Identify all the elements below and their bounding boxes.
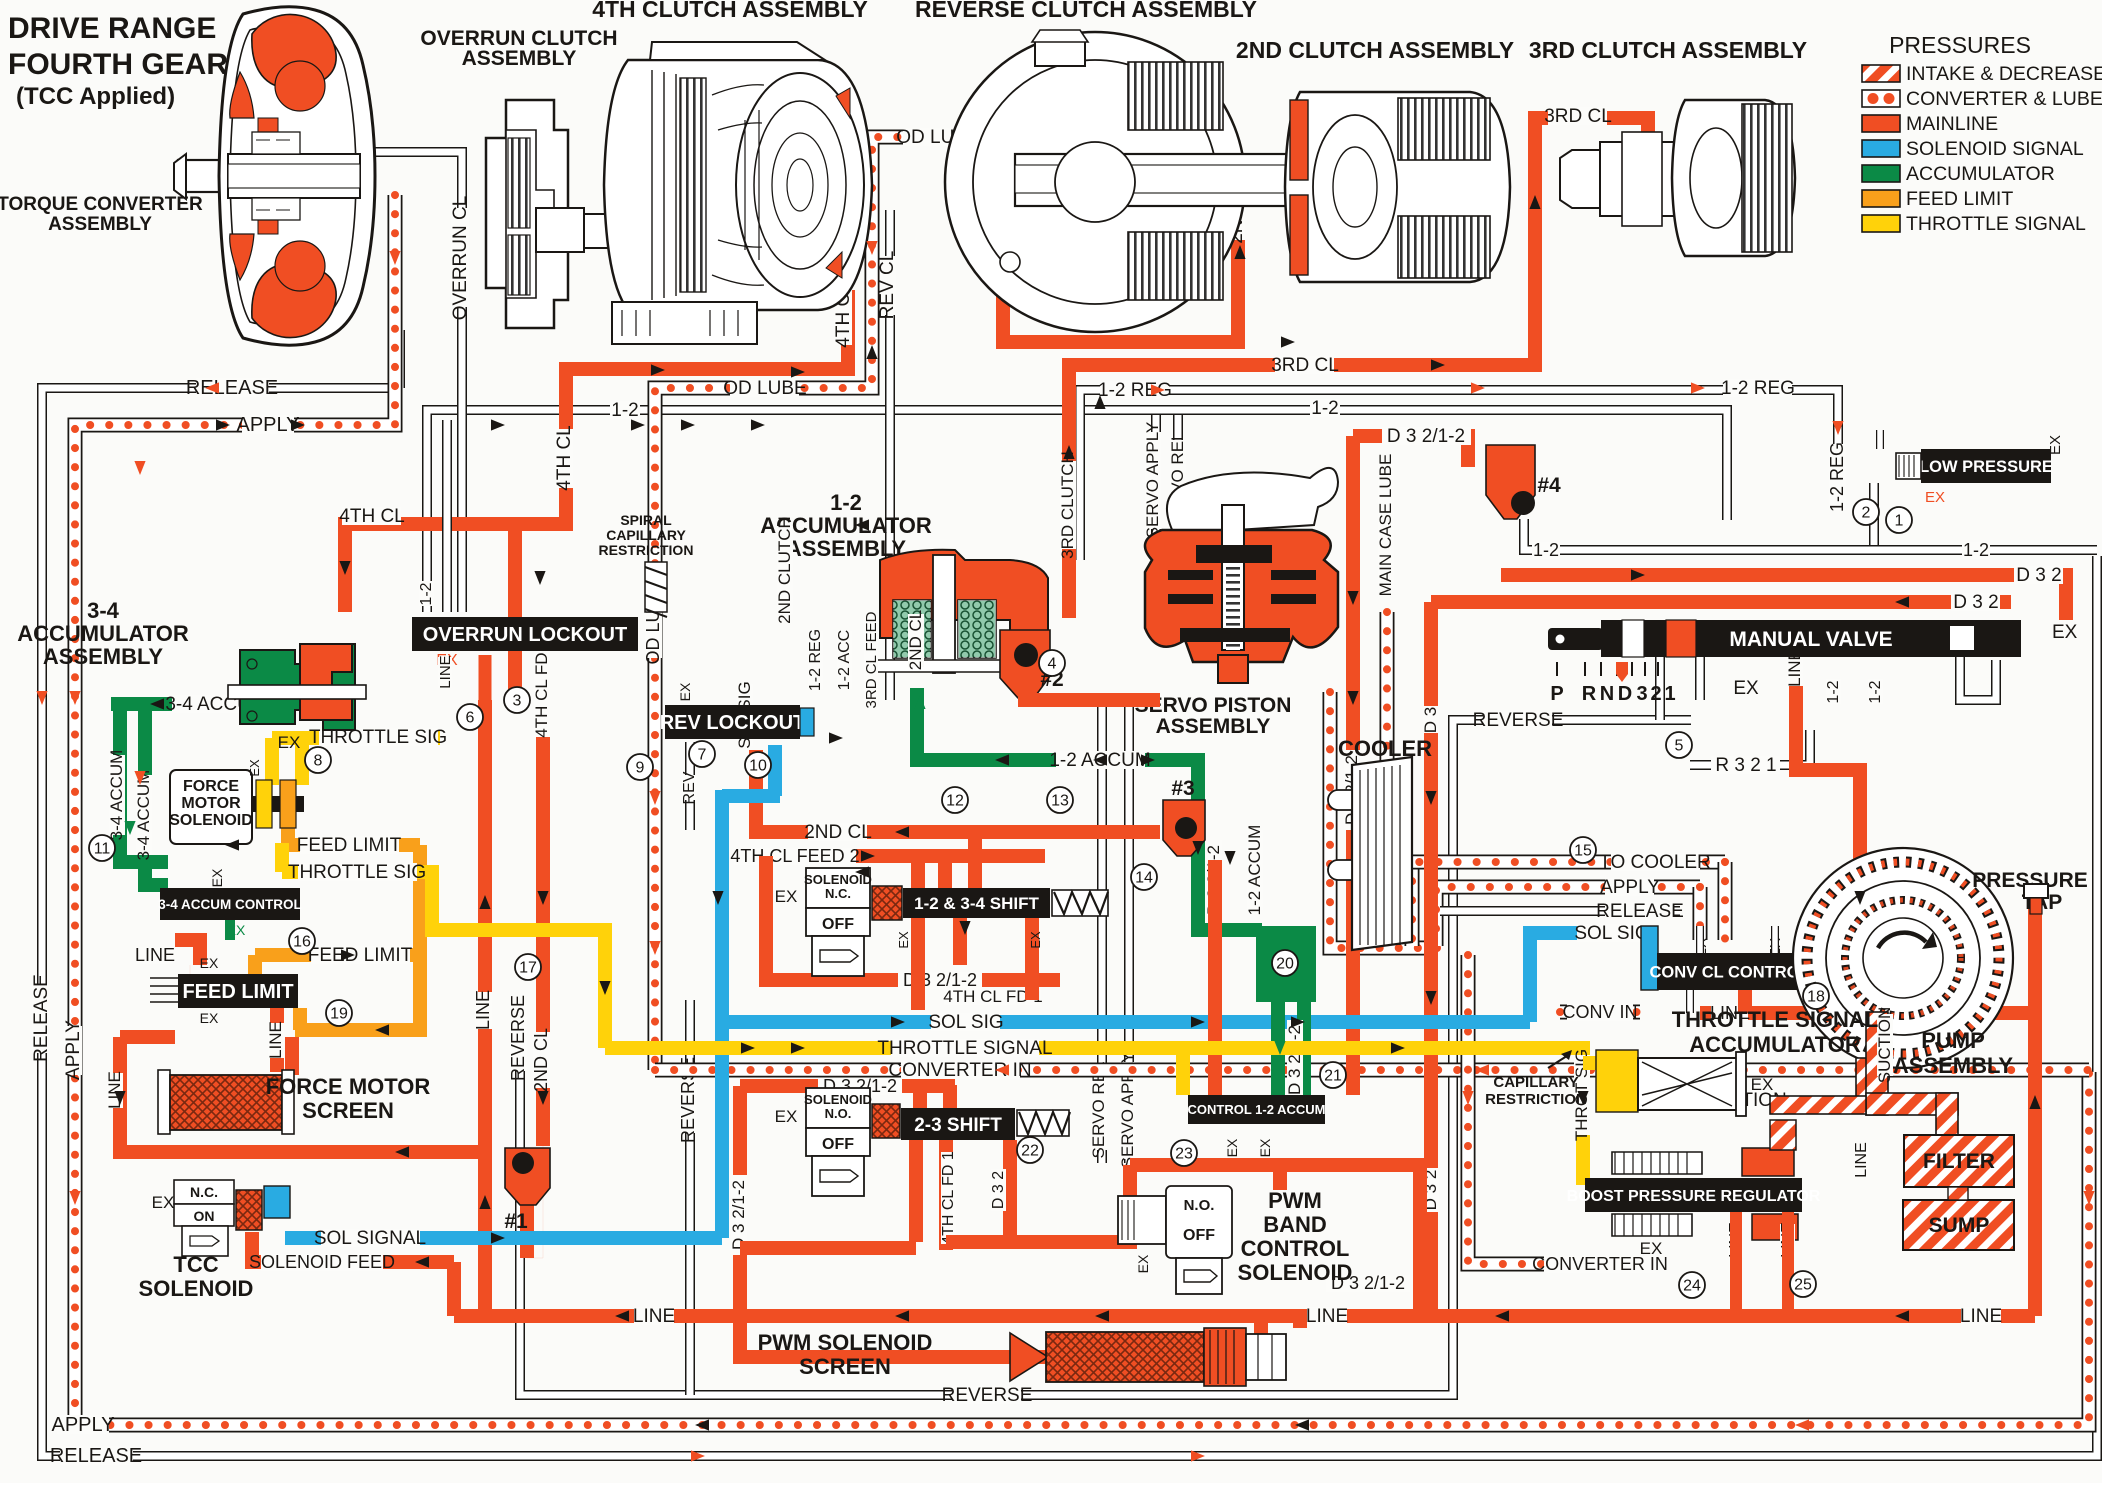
svg-text:SOL SIGNAL: SOL SIGNAL (314, 1228, 426, 1249)
svg-text:EX: EX (1224, 1138, 1240, 1157)
svg-text:4: 4 (1048, 656, 1057, 673)
svg-text:PWM: PWM (1268, 1188, 1322, 1213)
svg-text:3-4 ACCUM: 3-4 ACCUM (134, 770, 153, 861)
svg-text:TCC: TCC (173, 1252, 218, 1277)
svg-text:2: 2 (1650, 683, 1661, 705)
svg-text:EX: EX (200, 1010, 219, 1026)
svg-text:OD LUBE: OD LUBE (723, 378, 806, 399)
svg-text:4TH CL FD 1: 4TH CL FD 1 (940, 1151, 957, 1245)
svg-text:3-4 ACCUM: 3-4 ACCUM (107, 750, 126, 841)
svg-text:1-2 ACCUM: 1-2 ACCUM (1245, 825, 1264, 916)
svg-text:APPLY: APPLY (1600, 877, 1660, 898)
svg-text:10: 10 (749, 758, 767, 775)
svg-text:SOLENOID: SOLENOID (1238, 1260, 1353, 1285)
svg-text:RELEASE: RELEASE (186, 377, 278, 399)
svg-text:FOURTH GEAR: FOURTH GEAR (8, 48, 228, 81)
svg-text:SOL SIG: SOL SIG (928, 1012, 1003, 1033)
svg-text:REV: REV (681, 771, 698, 804)
svg-text:D 3 2: D 3 2 (2016, 565, 2061, 586)
svg-text:3: 3 (1636, 683, 1647, 705)
svg-text:2ND CLUTCH: 2ND CLUTCH (775, 516, 794, 624)
svg-text:PWM SOLENOID: PWM SOLENOID (758, 1330, 933, 1355)
svg-text:MOTOR: MOTOR (181, 795, 241, 812)
svg-text:3RD CLUTCH ASSEMBLY: 3RD CLUTCH ASSEMBLY (1529, 37, 1807, 63)
svg-text:R 3 2 1: R 3 2 1 (1715, 755, 1776, 776)
svg-text:SCREEN: SCREEN (799, 1354, 891, 1379)
svg-text:2: 2 (1862, 505, 1871, 522)
svg-text:RESTRICTION: RESTRICTION (1485, 1091, 1587, 1108)
svg-text:ACCUMULATOR: ACCUMULATOR (1906, 163, 2055, 185)
svg-text:1-2: 1-2 (1867, 680, 1884, 703)
svg-text:DRIVE RANGE: DRIVE RANGE (8, 12, 216, 45)
svg-text:EX: EX (1925, 489, 1945, 506)
svg-text:SOLENOID: SOLENOID (139, 1276, 254, 1301)
svg-text:OVERRUN CL: OVERRUN CL (450, 196, 471, 321)
svg-text:EX: EX (152, 1193, 175, 1212)
svg-text:25: 25 (1794, 1277, 1812, 1294)
svg-text:OFF: OFF (822, 1136, 854, 1153)
svg-text:TO COOLER: TO COOLER (1599, 852, 1711, 873)
svg-text:PRESSURES: PRESSURES (1889, 32, 2031, 58)
svg-text:LINE: LINE (1960, 1306, 2002, 1327)
svg-text:12: 12 (946, 793, 964, 810)
svg-text:CONTROL 1-2 ACCUM: CONTROL 1-2 ACCUM (1188, 1102, 1326, 1117)
svg-text:3RD CLUTCH: 3RD CLUTCH (1058, 451, 1077, 559)
svg-text:SOLENOID: SOLENOID (169, 812, 253, 829)
svg-text:MANUAL VALVE: MANUAL VALVE (1729, 628, 1892, 651)
svg-text:6: 6 (466, 710, 475, 727)
svg-text:22: 22 (1021, 1143, 1039, 1160)
svg-text:LINE: LINE (105, 1071, 124, 1109)
svg-text:#4: #4 (1537, 474, 1561, 497)
svg-text:LINE: LINE (473, 990, 493, 1030)
svg-text:EX: EX (1733, 678, 1759, 699)
svg-text:2-3 SHIFT: 2-3 SHIFT (914, 1115, 1002, 1136)
svg-text:EX: EX (1257, 1138, 1273, 1157)
svg-text:LINE: LINE (437, 655, 454, 688)
svg-text:19: 19 (330, 1006, 348, 1023)
svg-text:1-2: 1-2 (830, 490, 862, 515)
svg-text:ACCUMULATOR: ACCUMULATOR (1689, 1032, 1861, 1057)
svg-text:REV LOCKOUT: REV LOCKOUT (660, 712, 806, 734)
svg-text:BOOST PRESSURE REGULATOR: BOOST PRESSURE REGULATOR (1567, 1188, 1821, 1205)
svg-text:RELEASE: RELEASE (1596, 901, 1684, 922)
svg-text:THROTTLE SIGNAL: THROTTLE SIGNAL (1672, 1007, 1879, 1032)
svg-text:11: 11 (94, 841, 111, 858)
svg-text:13: 13 (1051, 793, 1069, 810)
svg-text:D 3 2: D 3 2 (1953, 592, 1998, 613)
svg-text:SOLENOID FEED: SOLENOID FEED (249, 1252, 395, 1272)
svg-text:LINE: LINE (1306, 1306, 1348, 1327)
svg-text:15: 15 (1574, 843, 1592, 860)
svg-text:EX: EX (2047, 435, 2064, 455)
svg-text:EX: EX (775, 887, 798, 906)
svg-text:APPLY: APPLY (237, 414, 300, 436)
svg-text:1-2: 1-2 (1825, 680, 1842, 703)
svg-text:EX: EX (775, 1107, 798, 1126)
svg-text:23: 23 (1175, 1146, 1193, 1163)
svg-text:P: P (1550, 683, 1563, 705)
svg-text:CAPILLARY: CAPILLARY (1493, 1074, 1578, 1091)
svg-text:LINE: LINE (1853, 1142, 1870, 1178)
svg-text:THROTTLE SIG: THROTTLE SIG (288, 862, 426, 883)
svg-text:D 3 2/1-2: D 3 2/1-2 (1285, 1025, 1304, 1095)
svg-text:REV CL: REV CL (877, 251, 898, 320)
svg-text:OFF: OFF (822, 916, 854, 933)
svg-text:SERVO APPLY: SERVO APPLY (1143, 422, 1162, 539)
svg-text:MAIN CASE LUBE: MAIN CASE LUBE (1376, 454, 1395, 597)
svg-text:ASSEMBLY: ASSEMBLY (462, 47, 577, 70)
svg-text:N.C.: N.C. (825, 886, 851, 901)
svg-text:1-2 REG: 1-2 REG (1827, 442, 1847, 512)
svg-text:1-2: 1-2 (1963, 540, 1989, 560)
svg-text:APPLY: APPLY (63, 1020, 84, 1080)
svg-text:SPIRAL: SPIRAL (620, 512, 672, 528)
svg-text:REVERSE: REVERSE (942, 1385, 1033, 1406)
svg-text:#1: #1 (504, 1210, 528, 1233)
svg-text:THROTTLE SIGNAL: THROTTLE SIGNAL (877, 1038, 1052, 1059)
svg-text:CONVERTER & LUBE: CONVERTER & LUBE (1906, 88, 2102, 110)
svg-text:17: 17 (519, 960, 537, 977)
svg-text:INTAKE & DECREASE: INTAKE & DECREASE (1906, 63, 2102, 85)
svg-text:CONV CL CONTROL: CONV CL CONTROL (1649, 963, 1809, 981)
svg-text:1-2: 1-2 (611, 400, 638, 421)
svg-text:3RD CL: 3RD CL (1271, 355, 1339, 376)
svg-text:1-2 ACC: 1-2 ACC (836, 630, 853, 690)
svg-text:RELEASE: RELEASE (31, 974, 52, 1062)
svg-text:3-4 ACCUM CONTROL: 3-4 ACCUM CONTROL (158, 897, 302, 912)
svg-text:EX: EX (227, 922, 246, 938)
svg-text:18: 18 (1807, 989, 1825, 1006)
svg-text:RESTRICTION: RESTRICTION (599, 542, 694, 558)
svg-text:ASSEMBLY: ASSEMBLY (1893, 1053, 2014, 1078)
svg-text:COOLER: COOLER (1338, 736, 1432, 761)
svg-text:CONTROL: CONTROL (1241, 1236, 1350, 1261)
svg-text:EX: EX (1135, 1254, 1151, 1273)
svg-text:2ND CL: 2ND CL (531, 1028, 551, 1092)
svg-text:3-4: 3-4 (87, 598, 120, 623)
svg-text:14: 14 (1135, 870, 1153, 887)
svg-text:APPLY: APPLY (52, 1414, 115, 1436)
svg-text:D 3 2: D 3 2 (990, 1171, 1007, 1209)
svg-text:ASSEMBLY: ASSEMBLY (43, 644, 164, 669)
svg-text:D: D (1618, 683, 1632, 705)
svg-text:LINE: LINE (135, 945, 175, 965)
svg-text:EX: EX (1028, 931, 1043, 949)
svg-text:7: 7 (698, 747, 707, 764)
svg-text:SCREEN: SCREEN (302, 1098, 394, 1123)
svg-text:N.C.: N.C. (190, 1184, 218, 1200)
svg-text:PUMP: PUMP (1921, 1028, 1985, 1053)
svg-text:EX: EX (278, 733, 301, 752)
svg-text:3RD CL: 3RD CL (1544, 106, 1612, 127)
svg-text:21: 21 (1324, 1068, 1342, 1085)
svg-text:1-2 & 3-4 SHIFT: 1-2 & 3-4 SHIFT (914, 894, 1039, 913)
svg-text:FEED LIMIT: FEED LIMIT (1906, 188, 2013, 210)
svg-text:1: 1 (1664, 683, 1675, 705)
svg-text:OFF: OFF (1183, 1227, 1215, 1244)
svg-text:REVERSE: REVERSE (508, 995, 528, 1081)
svg-text:SUMP: SUMP (1929, 1214, 1990, 1237)
svg-text:1: 1 (1895, 513, 1904, 530)
svg-text:SOLENOID SIGNAL: SOLENOID SIGNAL (1906, 138, 2084, 160)
svg-text:FORCE MOTOR: FORCE MOTOR (266, 1074, 431, 1099)
svg-text:N: N (1600, 683, 1614, 705)
svg-text:1-2 REG: 1-2 REG (1721, 378, 1795, 399)
svg-text:4TH CL FEED 2: 4TH CL FEED 2 (730, 846, 859, 866)
svg-text:1-2: 1-2 (1311, 398, 1338, 419)
svg-text:R: R (1582, 683, 1597, 705)
svg-text:FEED LIMIT: FEED LIMIT (297, 835, 402, 856)
svg-text:BAND: BAND (1263, 1212, 1327, 1237)
svg-text:N.O.: N.O. (825, 1106, 852, 1121)
svg-text:4TH CLUTCH ASSEMBLY: 4TH CLUTCH ASSEMBLY (592, 0, 868, 22)
svg-text:CONV IN: CONV IN (1562, 1002, 1637, 1022)
svg-text:LOW PRESSURE: LOW PRESSURE (1919, 458, 2053, 476)
svg-text:RELEASE: RELEASE (50, 1445, 142, 1467)
svg-text:SOLENOID: SOLENOID (804, 1092, 872, 1107)
svg-text:5: 5 (1675, 738, 1684, 755)
svg-text:9: 9 (636, 760, 645, 777)
svg-text:24: 24 (1683, 1278, 1701, 1295)
svg-text:EX: EX (1751, 1075, 1774, 1094)
svg-text:EX: EX (2052, 622, 2078, 643)
svg-text:LINE: LINE (266, 1021, 285, 1059)
svg-text:2ND CLUTCH ASSEMBLY: 2ND CLUTCH ASSEMBLY (1236, 37, 1514, 63)
svg-text:CONVERTER IN: CONVERTER IN (888, 1060, 1031, 1081)
svg-text:CAPILLARY: CAPILLARY (606, 527, 686, 543)
svg-text:2ND CL: 2ND CL (906, 610, 925, 670)
svg-text:EX: EX (247, 759, 262, 777)
svg-text:SOL SIG: SOL SIG (1574, 923, 1649, 944)
svg-text:3: 3 (513, 693, 522, 710)
svg-text:4TH CL FD 2: 4TH CL FD 2 (532, 638, 551, 738)
svg-text:1-2 REG: 1-2 REG (807, 629, 824, 691)
svg-text:3RD CL FEED: 3RD CL FEED (863, 611, 880, 708)
svg-text:ASSEMBLY: ASSEMBLY (1156, 715, 1271, 738)
svg-text:2ND CL: 2ND CL (804, 822, 872, 843)
svg-text:LINE: LINE (633, 1306, 675, 1327)
svg-text:FORCE: FORCE (183, 778, 239, 795)
svg-text:MAINLINE: MAINLINE (1906, 113, 1998, 135)
svg-text:1-2: 1-2 (418, 582, 435, 605)
svg-text:EX: EX (209, 868, 225, 887)
svg-text:16: 16 (293, 934, 311, 951)
svg-text:ASSEMBLY: ASSEMBLY (48, 214, 152, 235)
svg-text:EX: EX (200, 955, 219, 971)
svg-text:#3: #3 (1171, 777, 1194, 800)
svg-text:N.O.: N.O. (1184, 1197, 1215, 1214)
svg-text:FILTER: FILTER (1923, 1150, 1995, 1173)
svg-text:EX: EX (896, 931, 911, 949)
svg-text:4TH CL: 4TH CL (339, 506, 404, 527)
svg-text:20: 20 (1276, 956, 1294, 973)
svg-text:D 3: D 3 (1421, 707, 1440, 733)
svg-text:REVERSE CLUTCH ASSEMBLY: REVERSE CLUTCH ASSEMBLY (915, 0, 1257, 22)
svg-text:REVERSE: REVERSE (1473, 710, 1564, 731)
svg-text:D 3 2/1-2: D 3 2/1-2 (1387, 426, 1465, 447)
svg-text:FEED LIMIT: FEED LIMIT (308, 945, 413, 966)
svg-text:D 3 2/1-2: D 3 2/1-2 (729, 1180, 748, 1250)
svg-text:EX: EX (1640, 1239, 1663, 1258)
svg-text:1-2: 1-2 (1533, 540, 1559, 560)
svg-text:ACCUMULATOR: ACCUMULATOR (17, 621, 189, 646)
svg-text:4TH CL: 4TH CL (554, 425, 575, 490)
svg-text:TORQUE CONVERTER: TORQUE CONVERTER (0, 194, 203, 215)
svg-text:EX: EX (677, 682, 693, 701)
svg-text:ON: ON (194, 1208, 215, 1224)
svg-text:8: 8 (314, 753, 323, 770)
svg-text:FEED LIMIT: FEED LIMIT (182, 981, 293, 1003)
svg-text:OVERRUN LOCKOUT: OVERRUN LOCKOUT (423, 624, 627, 646)
svg-text:THROTTLE SIGNAL: THROTTLE SIGNAL (1906, 213, 2086, 235)
svg-text:(TCC Applied): (TCC Applied) (16, 83, 175, 110)
